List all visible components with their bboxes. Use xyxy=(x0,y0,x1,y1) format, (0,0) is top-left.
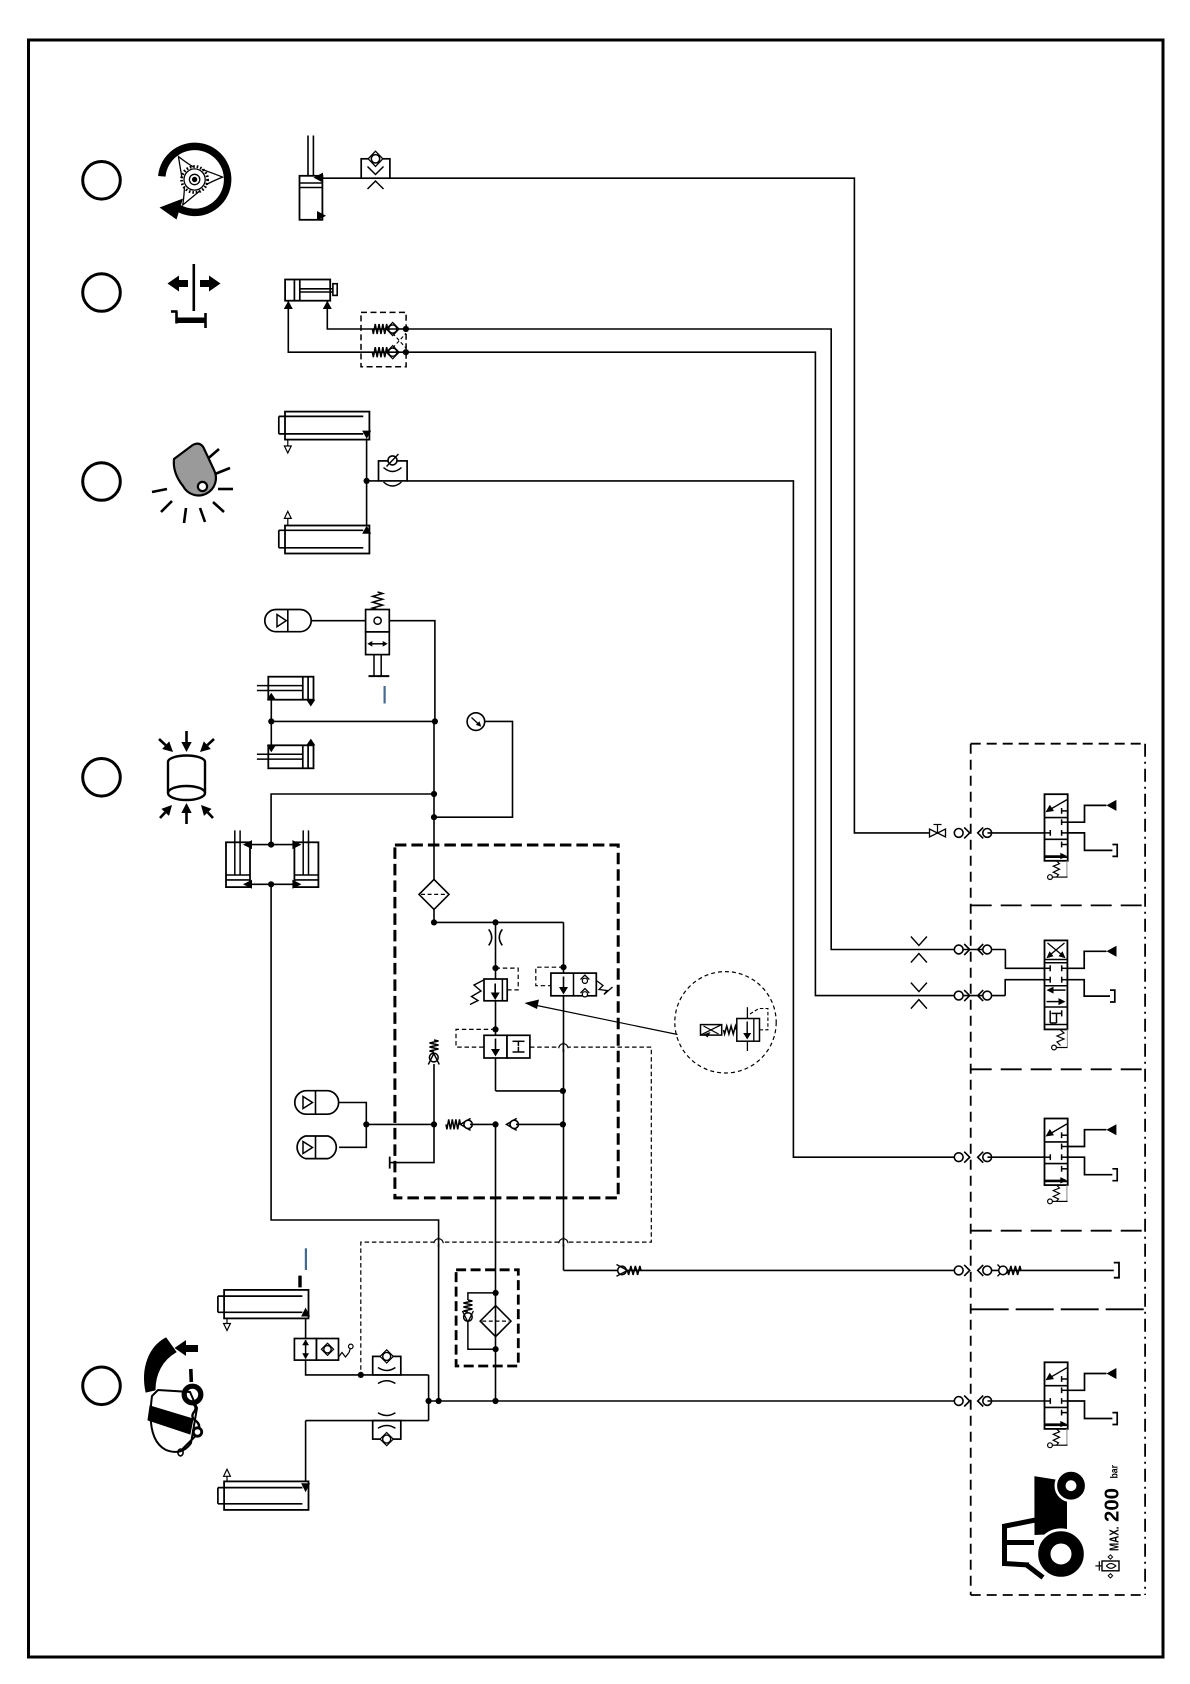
wire unloading valve down xyxy=(560,996,566,1271)
return line tractor side xyxy=(987,1263,1119,1278)
blocked branch end xyxy=(390,1124,434,1168)
blue mark 1 xyxy=(384,686,386,704)
section separator 2 xyxy=(971,1068,1145,1070)
pump suction drop xyxy=(492,1124,498,1404)
wire reducing valve down xyxy=(492,1001,498,1036)
hose break marks section 2A xyxy=(911,937,927,963)
pressure reducing valve RV1 xyxy=(470,968,518,1004)
coupler pair section 2B xyxy=(954,990,991,1001)
return filter F2 xyxy=(480,1306,511,1337)
item circle 4 xyxy=(83,759,121,797)
spool valve section 3 xyxy=(1045,1119,1068,1186)
wire press cylinders xyxy=(268,700,274,746)
filter bypass check valve xyxy=(462,1290,498,1352)
manifold enclosure xyxy=(395,845,618,1198)
item circle 1 xyxy=(83,162,121,200)
wire to return column xyxy=(516,1121,566,1127)
wire flow control to section 1 xyxy=(390,178,929,833)
clamp cylinder left xyxy=(226,830,252,888)
check valve pilot branch xyxy=(428,1040,439,1065)
wire orifice to reducing valve xyxy=(492,922,498,979)
flow control valve with bypass check FC1 xyxy=(361,151,390,189)
item circle 5 xyxy=(83,1367,121,1405)
hose break marks section 2B xyxy=(911,983,927,1009)
section 4 lever and tank xyxy=(1048,1368,1118,1448)
check valve accumulator line 1 xyxy=(446,1118,479,1130)
hydraulic motor M1 xyxy=(300,136,327,221)
section separator 1 xyxy=(971,904,1145,906)
closed port mark xyxy=(298,1276,301,1288)
wire lower cylinder drop xyxy=(305,1421,307,1482)
accumulator AC2 xyxy=(295,1091,339,1115)
wire coupler to section 1 xyxy=(988,832,1045,834)
orifice restrictor xyxy=(489,929,503,945)
pilot operated double check valve block xyxy=(361,312,409,366)
wire accumulators to manifold xyxy=(366,1121,437,1127)
item circle 3 xyxy=(83,463,121,501)
accumulator AC1 xyxy=(265,610,311,632)
coupler pair section 2A xyxy=(954,944,991,955)
spool valve section 4 xyxy=(1045,1362,1068,1429)
wire clamp bottom ports xyxy=(250,881,294,887)
icon pickup xyxy=(145,1338,202,1456)
clamp cylinder right xyxy=(292,830,318,888)
wire gauge to main line xyxy=(431,721,513,820)
wire clamp to supply return xyxy=(271,884,439,1401)
wire check A to section 2 port A xyxy=(406,329,1006,950)
supply line to section 4 xyxy=(429,1398,954,1404)
icon rotor with rotation arrow xyxy=(160,146,228,219)
tractor icon xyxy=(1003,1471,1086,1579)
detail relief valve xyxy=(737,1007,768,1051)
detail callout arrow xyxy=(525,1000,678,1035)
wire cylinder to lock valve xyxy=(305,1318,307,1338)
wire motor to flow control xyxy=(322,177,361,179)
wire cylinder B port xyxy=(288,301,406,353)
wire coupler to section 4 xyxy=(988,1400,1045,1402)
cylinder side-shift CS xyxy=(284,280,337,310)
detail circle callout xyxy=(675,972,776,1073)
wire cylinder A port xyxy=(327,301,406,329)
pickup tee riser xyxy=(426,1375,432,1421)
wire relief valve to junction xyxy=(389,621,438,725)
coupler pair section 4 xyxy=(954,1396,991,1407)
throttle check valve TC3 xyxy=(379,454,408,486)
pressure relief valve PR1 xyxy=(366,592,390,676)
wire joining rams xyxy=(364,439,370,526)
pickup cylinder lower xyxy=(218,1469,310,1510)
wire lock valve to node xyxy=(306,1360,429,1378)
wire lower cylinder to node xyxy=(306,1420,429,1422)
wire press to main line xyxy=(271,720,435,722)
detail spring xyxy=(724,1026,737,1034)
pilot lock valve PV1 xyxy=(294,1339,353,1361)
svg-text:bar: bar xyxy=(1109,1465,1120,1479)
wire couplers to section 2 xyxy=(1005,950,1044,969)
section 1 lever and tank xyxy=(1048,800,1118,880)
spool valve section 1 xyxy=(1045,794,1068,861)
pump gallery right leg xyxy=(560,922,566,973)
manifold top gallery xyxy=(434,919,564,925)
wire coupler to section 3 xyxy=(988,1156,1045,1158)
item circle 2 xyxy=(83,274,121,312)
wire twin cylinders to main riser xyxy=(271,794,434,845)
hydraulic oil symbol xyxy=(1095,1555,1119,1578)
svg-text:200: 200 xyxy=(1101,1488,1124,1522)
detail proportional solenoid xyxy=(701,1025,722,1038)
svg-text:MAX.: MAX. xyxy=(1107,1527,1122,1552)
pressure gauge G1 xyxy=(467,713,485,731)
max pressure label xyxy=(1101,1465,1124,1551)
shutoff valve on section 1 line xyxy=(930,825,946,838)
wire sequence to unloading link xyxy=(496,1090,563,1092)
throttle check lower TC6 xyxy=(373,1413,401,1446)
main riser wire xyxy=(431,721,437,879)
wire check B to section 2 port B xyxy=(406,352,1005,995)
pilot line to pickup valve xyxy=(361,1047,652,1375)
ram cylinder bottom (crop press) xyxy=(279,511,371,553)
coupler pair return xyxy=(954,1265,991,1276)
spool valve section 2 xyxy=(1045,940,1068,1029)
blue mark 2 xyxy=(305,1248,307,1270)
pilot line hop 1 xyxy=(558,1042,568,1052)
icon compress drum xyxy=(159,731,214,824)
return line with check xyxy=(564,1265,955,1277)
section 2 lever and tank xyxy=(1052,946,1117,1050)
section separator 4 xyxy=(971,1308,1145,1310)
coupler pair section 3 xyxy=(954,1152,991,1163)
suction filter F1 xyxy=(419,879,449,909)
wire filter to pump node xyxy=(431,909,437,925)
wire clamp top ports xyxy=(250,842,294,848)
unloading valve UV1 xyxy=(536,967,613,997)
wire to pump line xyxy=(470,1121,499,1127)
wire sequence valve down xyxy=(495,1058,497,1091)
sequence valve SV1 xyxy=(456,1029,530,1058)
wire accumulator to relief valve xyxy=(311,620,365,622)
wire accumulators junction xyxy=(339,1103,369,1148)
section separator 3 xyxy=(971,1230,1145,1232)
check valve accumulator line 2 xyxy=(507,1118,519,1130)
filter with bypass enclosure xyxy=(456,1270,518,1366)
tractor valve block enclosure xyxy=(971,744,1145,1595)
ram cylinder top (crop press) xyxy=(279,412,371,453)
section 3 lever and tank xyxy=(1048,1124,1118,1204)
icon side-shift arrows xyxy=(168,264,221,328)
accumulator AC3 xyxy=(297,1136,336,1159)
icon crop tool gray xyxy=(152,444,233,523)
throttle check upper TC5 xyxy=(373,1350,401,1384)
pilot line hop 2 xyxy=(558,1237,568,1247)
press cylinder upper xyxy=(257,677,315,707)
coupler pair section 1 xyxy=(954,827,991,838)
press cylinder lower xyxy=(257,739,315,769)
wire manifold filter leg xyxy=(433,1064,435,1124)
wire rams to section 3 port xyxy=(367,480,379,482)
pickup cylinder upper xyxy=(218,1290,310,1331)
pilot line hop 3 xyxy=(434,1237,444,1247)
